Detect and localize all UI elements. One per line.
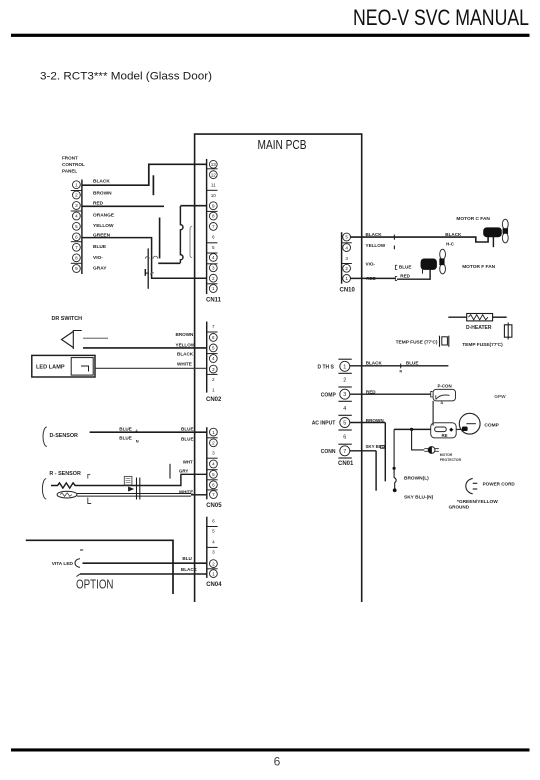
- svg-text:D-SENSOR: D-SENSOR: [50, 433, 79, 439]
- top rule: [11, 34, 530, 37]
- svg-text:BROWN: BROWN: [366, 418, 385, 423]
- svg-text:BLUE: BLUE: [181, 427, 194, 432]
- wire SKY BLUE conn: [350, 450, 376, 452]
- CN11 pins: [209, 160, 217, 168]
- svg-text:6: 6: [343, 434, 346, 440]
- wire BLU option to CN04 pin2: [83, 562, 207, 564]
- faint parallel wire x190: [190, 226, 192, 257]
- bracket blue: [395, 265, 397, 269]
- svg-text:3: 3: [212, 265, 215, 270]
- d-sensor bracket: [43, 427, 47, 446]
- svg-text:BLACK: BLACK: [177, 352, 194, 357]
- stray vertical mark: [169, 464, 171, 479]
- svg-text:NEO-V SVC MANUAL: NEO-V SVC MANUAL: [353, 5, 529, 30]
- svg-text:RE: RE: [442, 433, 448, 438]
- svg-text:4: 4: [212, 356, 215, 361]
- svg-text:6: 6: [274, 755, 281, 769]
- rf L mark: [88, 498, 91, 504]
- main pcb outline: [195, 134, 362, 602]
- CN05 pins: [210, 428, 218, 436]
- bracket red: [395, 276, 397, 280]
- svg-text:6: 6: [212, 335, 215, 340]
- svg-text:5: 5: [212, 346, 215, 351]
- svg-text:CN11: CN11: [206, 298, 222, 304]
- vertical wire with hops x180: [180, 206, 183, 263]
- svg-text:2: 2: [212, 276, 215, 281]
- bottom rule: [11, 748, 530, 751]
- svg-text:7: 7: [75, 245, 78, 250]
- heater D-HEATER: [467, 314, 493, 321]
- motor F fan body: [421, 259, 436, 269]
- svg-text:6: 6: [212, 482, 215, 487]
- svg-text:GRAY: GRAY: [93, 265, 107, 271]
- rf middle box: [124, 476, 132, 485]
- svg-text:2: 2: [343, 378, 346, 384]
- svg-text:N: N: [136, 439, 139, 444]
- led lamp box: [32, 355, 95, 377]
- neutral drop wire: [393, 429, 395, 468]
- connector CN11 bar: [206, 159, 208, 294]
- wire BLACK option to CN04 pin1: [80, 573, 207, 575]
- svg-text:BLUE: BLUE: [119, 427, 132, 432]
- svg-text:ORANGE: ORANGE: [93, 212, 115, 218]
- svg-text:5: 5: [75, 224, 78, 229]
- wire BLACK d-th sensor: [350, 365, 449, 367]
- svg-text:1: 1: [343, 364, 346, 370]
- svg-text:13: 13: [211, 162, 217, 167]
- svg-text:BLUE: BLUE: [406, 361, 419, 366]
- svg-text:VITA LED: VITA LED: [52, 561, 74, 567]
- svg-text:SKY BLU-(N): SKY BLU-(N): [404, 495, 434, 501]
- vertical mark x159: [159, 218, 161, 259]
- svg-text:3-2. RCT3*** Model (Glass Door: 3-2. RCT3*** Model (Glass Door): [40, 71, 212, 83]
- svg-text:3: 3: [212, 367, 215, 372]
- wire to OLP: [412, 429, 425, 450]
- connector tick on black wire: [393, 235, 395, 240]
- rf wire1 with coil: [51, 474, 207, 488]
- coil feed wire: [394, 428, 431, 430]
- svg-text:2: 2: [212, 377, 215, 382]
- motor C fan body: [484, 228, 502, 237]
- svg-text:AC INPUT: AC INPUT: [312, 421, 336, 427]
- svg-text:1: 1: [212, 286, 215, 291]
- svg-text:PANEL: PANEL: [62, 169, 77, 174]
- svg-text:7: 7: [343, 449, 346, 455]
- svg-text:BLUE: BLUE: [399, 265, 412, 270]
- panel pins 1-9: [73, 181, 81, 189]
- svg-text:10: 10: [211, 193, 217, 198]
- yellow stub: [393, 246, 395, 250]
- svg-text:9: 9: [75, 266, 78, 271]
- rf wire2 double line: [77, 493, 191, 495]
- relay coil box RE: [431, 423, 457, 438]
- dr switch arm: [83, 337, 108, 339]
- motor C fan blades: [502, 219, 508, 229]
- svg-text:2: 2: [212, 440, 215, 445]
- wire stub brown: [152, 175, 154, 195]
- connector CN02 bar: [206, 322, 208, 393]
- connector CN01 bars: [338, 358, 351, 360]
- svg-text:8: 8: [212, 214, 215, 219]
- link bar y263: [158, 262, 180, 264]
- svg-text:7: 7: [212, 224, 215, 229]
- svg-text:BLACK: BLACK: [181, 567, 198, 572]
- svg-text:BLUE: BLUE: [181, 437, 194, 442]
- svg-text:PROTECTOR: PROTECTOR: [440, 458, 462, 462]
- svg-text:D-HEATER: D-HEATER: [466, 325, 492, 331]
- svg-text:12: 12: [211, 172, 217, 177]
- connector CN10 bar: [341, 232, 343, 284]
- svg-text:DR SWITCH: DR SWITCH: [52, 316, 83, 322]
- svg-text:4: 4: [212, 255, 215, 260]
- svg-text:5: 5: [343, 420, 346, 426]
- svg-text:BROWN: BROWN: [93, 190, 112, 196]
- svg-text:1: 1: [212, 571, 215, 576]
- wire BLACK to motor c fan: [351, 235, 489, 243]
- svg-text:2: 2: [75, 193, 78, 198]
- svg-text:CN04: CN04: [206, 582, 222, 588]
- svg-text:5: 5: [212, 472, 215, 477]
- svg-text:BROWN: BROWN: [176, 332, 195, 337]
- wire WHITE led lamp to CN02 pin3: [95, 367, 207, 369]
- svg-text:POWER CORD: POWER CORD: [483, 481, 516, 486]
- rf dark arrow: [128, 487, 134, 492]
- svg-text:GPW: GPW: [494, 394, 506, 400]
- svg-text:BLUE: BLUE: [119, 435, 132, 440]
- svg-text:LED LAMP: LED LAMP: [36, 365, 65, 371]
- svg-text:4: 4: [212, 462, 215, 467]
- relay link vertical: [432, 401, 434, 426]
- svg-text:9: 9: [212, 203, 215, 208]
- bracket on red wire: [431, 392, 433, 397]
- svg-text:COMP: COMP: [484, 423, 499, 429]
- svg-text:MOTOR: MOTOR: [440, 453, 453, 457]
- temp fuse right symbol: [504, 325, 512, 337]
- svg-text:YELLOW: YELLOW: [93, 223, 114, 229]
- long option wire: [26, 540, 173, 594]
- svg-text:BLUE: BLUE: [93, 244, 107, 250]
- svg-text:6: 6: [212, 518, 215, 523]
- svg-text:MOTOR F FAN: MOTOR F FAN: [462, 264, 495, 270]
- led symbol: [75, 559, 80, 567]
- vertical mark x148: [147, 248, 149, 288]
- svg-text:4: 4: [212, 539, 215, 544]
- svg-text:YELLOW: YELLOW: [176, 342, 196, 347]
- svg-text:BLACK: BLACK: [445, 232, 462, 237]
- svg-text:CN05: CN05: [206, 503, 222, 509]
- wire BLACK panel pin1 to CN11 pin13: [82, 164, 207, 185]
- svg-text:5: 5: [345, 235, 348, 240]
- svg-text:OPTION: OPTION: [76, 578, 114, 592]
- svg-text:R: R: [400, 369, 403, 373]
- svg-text:GRY: GRY: [179, 468, 188, 473]
- svg-text:MAIN PCB: MAIN PCB: [258, 138, 307, 152]
- wire RED cn10 pin1: [351, 277, 396, 279]
- wire RED segment to CN11 pin9: [180, 205, 206, 207]
- CN10 pins: [343, 233, 351, 241]
- svg-text:VIO-: VIO-: [366, 261, 376, 266]
- svg-text:1: 1: [212, 430, 215, 435]
- wire BROWN ac input: [350, 422, 386, 424]
- svg-text:CN01: CN01: [338, 461, 354, 467]
- svg-text:BLACK: BLACK: [366, 360, 383, 365]
- svg-text:6: 6: [212, 234, 215, 239]
- svg-text:7: 7: [212, 492, 215, 497]
- svg-text:1: 1: [345, 276, 348, 281]
- olp symbol: [428, 447, 435, 454]
- svg-text:TEMP FUSE (77'C): TEMP FUSE (77'C): [396, 340, 438, 346]
- svg-text:1: 1: [75, 182, 78, 187]
- inline connector arcs: [145, 257, 149, 259]
- svg-text:2: 2: [212, 561, 215, 566]
- svg-text:11: 11: [211, 183, 216, 188]
- svg-text:4: 4: [343, 406, 346, 412]
- wire BLUE d-sensor to CN05 pin1: [90, 431, 207, 433]
- connector CN04 bar: [206, 517, 208, 578]
- svg-text:COMP: COMP: [321, 393, 337, 399]
- svg-text:RED: RED: [93, 200, 104, 206]
- svg-text:YELLOW: YELLOW: [366, 243, 386, 248]
- svg-text:CN02: CN02: [206, 397, 222, 403]
- panel connector bar: [81, 180, 83, 275]
- svg-text:BROWN(L): BROWN(L): [404, 476, 429, 482]
- inline connector mark low: [144, 269, 146, 276]
- svg-text:5: 5: [212, 528, 215, 533]
- comp motor circle: [459, 413, 480, 434]
- svg-text:RED: RED: [400, 273, 410, 278]
- relay contact box P-CON: [433, 389, 455, 401]
- svg-text:P-CON: P-CON: [438, 383, 452, 388]
- svg-text:CN10: CN10: [340, 288, 356, 294]
- svg-text:WHT: WHT: [183, 459, 193, 464]
- rf double bars: [136, 478, 138, 500]
- svg-text:5: 5: [212, 245, 215, 250]
- rf wire2 sensor bulb: [57, 491, 77, 498]
- svg-text:3: 3: [343, 392, 346, 398]
- svg-text:3: 3: [212, 550, 215, 555]
- svg-text:FRONT: FRONT: [62, 156, 78, 161]
- wire RED to motor f fan: [397, 269, 430, 279]
- svg-text:WHITE: WHITE: [177, 362, 192, 367]
- CN01 pins: [340, 361, 350, 371]
- svg-text:3: 3: [75, 203, 78, 208]
- wire RED panel pin3: [82, 205, 164, 207]
- wire YELLOW dr switch to CN02 pin5: [83, 347, 207, 349]
- svg-text:MOTOR C FAN: MOTOR C FAN: [456, 216, 490, 222]
- svg-text:BLACK: BLACK: [93, 178, 110, 184]
- svg-text:TEMP FUSE(77'C): TEMP FUSE(77'C): [462, 342, 503, 348]
- wire GREEN panel pin6 to CN11 pin2: [82, 238, 207, 279]
- svg-text:8: 8: [75, 255, 78, 260]
- svg-text:VIO-: VIO-: [93, 255, 103, 261]
- temp fuse left symbol: [439, 336, 441, 347]
- svg-text:2: 2: [345, 266, 348, 271]
- svg-text:RED: RED: [366, 390, 376, 395]
- svg-text:7: 7: [212, 324, 215, 329]
- svg-text:CONTROL: CONTROL: [62, 162, 85, 167]
- led lamp inner detail: [71, 358, 93, 376]
- svg-text:CONN: CONN: [321, 449, 336, 455]
- wire RED comp: [350, 393, 431, 395]
- svg-text:BLU: BLU: [182, 556, 192, 561]
- svg-text:WHITE: WHITE: [179, 490, 193, 495]
- dr switch symbol: [62, 332, 74, 348]
- svg-text:1: 1: [212, 387, 215, 392]
- motor F fan blades: [440, 249, 446, 259]
- power plug symbol: [466, 478, 473, 493]
- svg-text:6: 6: [75, 234, 78, 239]
- svg-text:3: 3: [345, 256, 348, 261]
- svg-text:4: 4: [75, 214, 78, 219]
- connector CN05 bar: [206, 427, 208, 499]
- tick on dth wire: [400, 364, 402, 369]
- rf-sensor bracket: [42, 479, 46, 499]
- svg-text:3: 3: [212, 450, 215, 455]
- svg-text:4: 4: [345, 245, 348, 250]
- svg-text:H-C: H-C: [446, 241, 455, 246]
- svg-text:GROUND: GROUND: [449, 505, 470, 510]
- svg-text:R - SENSOR: R - SENSOR: [49, 471, 81, 477]
- svg-text:D TH S: D TH S: [318, 365, 335, 371]
